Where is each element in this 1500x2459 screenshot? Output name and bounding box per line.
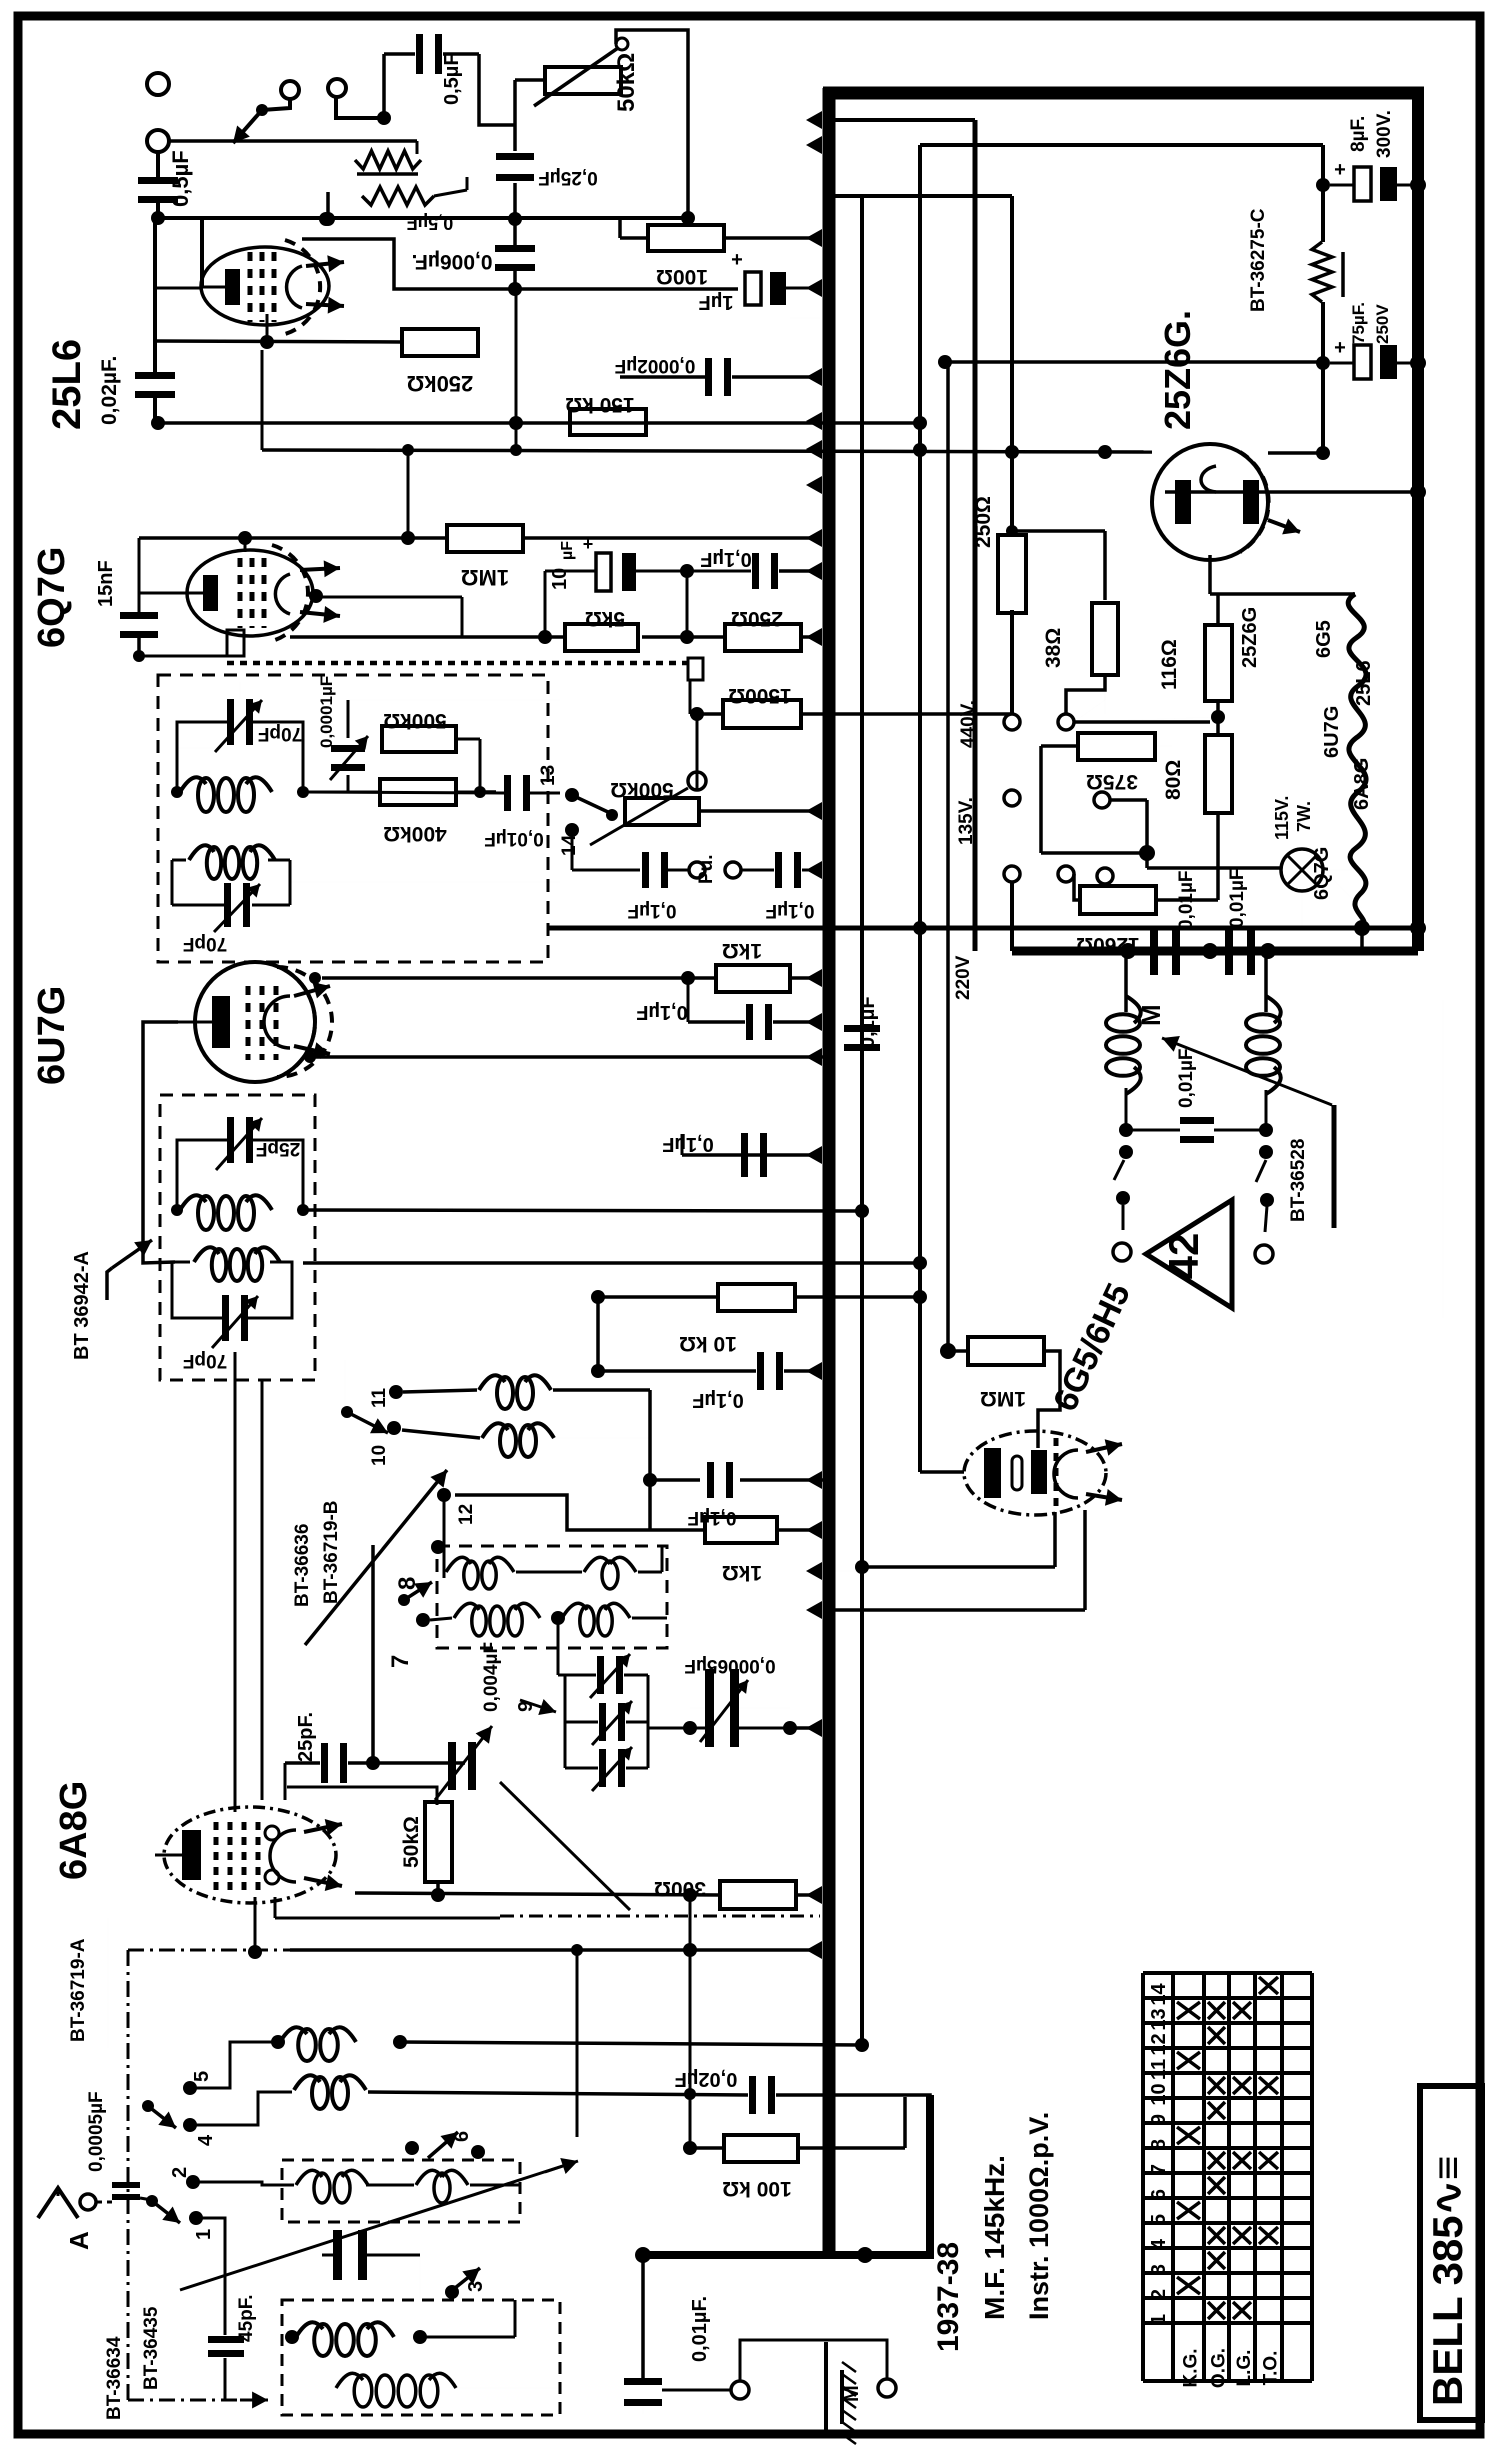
wire y1155	[681, 1134, 684, 1155]
svg-text:25pF.: 25pF.	[295, 1712, 317, 1762]
svg-text:6Q7G: 6Q7G	[31, 547, 73, 648]
svg-text:6U7G: 6U7G	[1321, 706, 1343, 758]
wire	[436, 1882, 440, 1895]
svg-text:BT-36719-B: BT-36719-B	[321, 1501, 342, 1605]
svg-text:M.F. 145kHz.: M.F. 145kHz.	[979, 2155, 1010, 2320]
wire x479	[479, 54, 515, 125]
wire	[690, 2146, 724, 2150]
svg-text:135V.: 135V.	[956, 797, 977, 845]
wire node	[938, 355, 952, 369]
IF coil 1a	[180, 777, 206, 792]
wire y218	[158, 216, 688, 220]
svg-text:6: 6	[1148, 2189, 1170, 2200]
capacitor 0,1uF e	[741, 1133, 748, 1177]
wire node	[304, 1051, 316, 1063]
svg-text:0,25µF: 0,25µF	[538, 167, 598, 188]
wire 10uF	[545, 570, 596, 573]
resistor zigzag BT-36275-C	[1312, 242, 1332, 302]
wire node	[151, 416, 165, 430]
wire jog 25L6 plate	[302, 239, 513, 289]
svg-text:1: 1	[193, 2229, 215, 2240]
svg-text:µF: µF	[559, 541, 576, 560]
svg-text:8: 8	[1148, 2139, 1170, 2150]
capacitor 10uF electrolytic	[596, 553, 611, 591]
wire y1057	[310, 1055, 829, 1059]
wire y1480	[650, 1478, 700, 1482]
wire node	[1316, 446, 1330, 460]
wire	[690, 1707, 706, 1709]
wire x374	[371, 1545, 375, 1763]
switch wiper 13	[606, 809, 618, 821]
mains terminal d	[1058, 714, 1074, 730]
wire ladder x948	[946, 362, 950, 1351]
IF transformer BT-36443-B dashed box	[158, 675, 548, 962]
wire x516 down	[515, 289, 518, 452]
resistor 5kOhm	[565, 624, 638, 651]
wire 6G5 bottom b	[1083, 1510, 1087, 1610]
mains terminal c	[1004, 866, 1020, 882]
wire y1263	[303, 1261, 920, 1265]
svg-text:10 kΩ: 10 kΩ	[679, 1332, 737, 1355]
wire y1567	[862, 1565, 1055, 1569]
osc coil C	[446, 1557, 471, 1572]
mains terminal f	[1058, 866, 1074, 882]
resistor 100kOhm	[724, 2135, 798, 2162]
svg-text:25L6: 25L6	[45, 339, 89, 430]
wire 25L6 g2	[266, 314, 269, 342]
wire	[801, 635, 820, 639]
capacitor 0,1uF b	[746, 1004, 753, 1040]
svg-text:7W.: 7W.	[1294, 801, 1314, 832]
svg-text:M: M	[841, 2385, 863, 2402]
svg-text:25Z6G: 25Z6G	[1239, 607, 1261, 668]
resistor 1MOhm	[447, 525, 523, 552]
svg-text:4: 4	[195, 2134, 217, 2146]
resistor hum zigzag	[362, 187, 434, 205]
wire	[336, 97, 384, 118]
ant coil row5	[336, 2373, 363, 2388]
resistor 116Ohm	[1205, 625, 1232, 701]
wire node	[855, 1560, 869, 1574]
resistor 1260Ohm	[1080, 886, 1156, 914]
IF transformer BT-36942-A dashed box	[160, 1095, 315, 1380]
svg-text:220V: 220V	[953, 955, 974, 1000]
trimmer capacitor padder c	[599, 1749, 606, 1787]
gang line	[180, 2162, 575, 2290]
osc coil D	[584, 1557, 610, 1572]
wire ladder x862	[860, 196, 864, 2045]
capacitor 0,02uF	[135, 372, 175, 379]
dashed box antenna bottom	[282, 2300, 560, 2415]
capacitor 0,01uF out	[624, 2378, 662, 2385]
svg-text:50kΩ: 50kΩ	[613, 53, 640, 112]
contact 2	[186, 2175, 200, 2189]
wire	[172, 859, 186, 862]
terminal Pu	[689, 862, 705, 878]
wire	[420, 2336, 515, 2339]
capacitor 0,01uF ps a	[1150, 927, 1158, 975]
wire	[516, 1571, 582, 1574]
trimmer capacitor 25pF	[227, 1117, 234, 1163]
terminal T2	[147, 130, 169, 152]
bus top horizontal	[823, 87, 1424, 100]
bus taper y238	[806, 229, 822, 247]
rheostat 50kOhm	[545, 67, 621, 94]
capacitor 0,01uF ps b	[1225, 927, 1233, 975]
wire	[1112, 876, 1114, 888]
mains terminal a	[1004, 714, 1020, 730]
switch spk left	[1119, 1145, 1133, 1159]
resistor 10kOhm	[718, 1284, 795, 1311]
svg-text:0,5µF: 0,5µF	[168, 150, 193, 207]
svg-text:300Ω: 300Ω	[654, 1877, 706, 1900]
capacitor 0,5uF top	[416, 34, 423, 74]
svg-text:440V.: 440V.	[958, 700, 979, 748]
dash-dot shield left	[127, 1950, 130, 2400]
wire	[196, 2218, 225, 2230]
svg-text:45pF.: 45pF.	[236, 2294, 257, 2342]
resistor 38Ohm	[1092, 603, 1118, 675]
wire y423	[158, 421, 828, 425]
wire node	[508, 212, 522, 226]
wire node x1012	[1005, 445, 1019, 459]
wire y978 rail	[322, 976, 716, 980]
svg-text:6Q7G: 6Q7G	[1311, 847, 1333, 900]
switch contact 14	[565, 823, 579, 837]
heavy wire x930	[926, 2095, 934, 2256]
wire node x862 y1038	[861, 1022, 863, 1032]
svg-text:0,1µF: 0,1µF	[857, 996, 879, 1048]
wire x558 down	[557, 1618, 560, 1675]
wire	[196, 2042, 278, 2088]
wire	[196, 2092, 292, 2125]
resistor 250Ohm b	[725, 624, 801, 651]
capacitor 0,1uF pu2	[775, 852, 782, 888]
bus right vertical	[1412, 88, 1424, 951]
svg-text:0,0001µF: 0,0001µF	[317, 676, 336, 748]
bus bottom heavy y951	[1012, 947, 1418, 956]
resistor 400kOhm	[380, 779, 456, 805]
bus junction tapers	[806, 111, 822, 129]
wire node	[1211, 710, 1225, 724]
svg-text:400kΩ: 400kΩ	[383, 822, 447, 845]
tube 25L6	[201, 240, 344, 334]
wire y145	[920, 143, 1323, 147]
wire	[1124, 951, 1128, 1012]
capacitor 25pF osc	[321, 1743, 328, 1783]
svg-text:250V: 250V	[1373, 304, 1392, 344]
antenna terminal	[80, 2194, 96, 2210]
wire node	[1139, 845, 1155, 861]
svg-text:6G5: 6G5	[1313, 620, 1335, 658]
svg-text:300V.: 300V.	[1374, 110, 1395, 158]
wire y2092	[368, 2092, 748, 2095]
ant coil row1	[280, 2027, 307, 2042]
switch wiper antenna	[146, 2195, 158, 2207]
resistor 300Ohm	[720, 1881, 796, 1909]
svg-text:5: 5	[191, 2071, 213, 2082]
wire node	[635, 2247, 651, 2263]
wire coil to cap	[177, 722, 227, 748]
tuning gang capacitor osc	[333, 2230, 342, 2280]
wire node	[151, 211, 165, 225]
wire 38 to term	[1066, 675, 1105, 714]
heavy wire y2255	[643, 2251, 934, 2259]
wire y362 to right	[945, 360, 1323, 364]
svg-text:50kΩ: 50kΩ	[400, 1816, 423, 1868]
svg-text:1500Ω: 1500Ω	[728, 684, 792, 707]
gang diagonal line K	[500, 1782, 630, 1910]
svg-text:1MΩ: 1MΩ	[461, 565, 509, 590]
wire lamp	[1323, 869, 1355, 871]
table X marks	[1177, 1977, 1278, 2319]
wire y377 capacitor 0,0002uF	[620, 375, 705, 379]
capacitor 0,1uF a	[752, 553, 759, 589]
switch wiper	[341, 1406, 353, 1418]
wire	[172, 1262, 222, 1318]
svg-text:13: 13	[538, 765, 559, 786]
svg-text:L.G.: L.G.	[1234, 2350, 1255, 2387]
wire node	[538, 630, 552, 644]
svg-text:BT-36719-A: BT-36719-A	[68, 1938, 89, 2042]
wire	[1110, 798, 1147, 802]
tube 6A8G	[155, 1807, 342, 1903]
capacitor 0,1uF bus right	[844, 1025, 880, 1032]
wire y928 heavy	[548, 926, 1418, 931]
wire y1610	[829, 1608, 1085, 1612]
svg-text:0,01µF: 0,01µF	[484, 828, 544, 849]
svg-text:1: 1	[1148, 2314, 1170, 2325]
svg-text:12: 12	[1148, 2033, 1170, 2055]
trimmer capacitor padder b	[599, 1703, 606, 1741]
capacitor 0,1uF osc	[707, 1462, 714, 1498]
svg-text:38Ω: 38Ω	[1042, 628, 1065, 668]
wire x1323	[1321, 145, 1325, 242]
switch wiper 8	[398, 1594, 410, 1606]
resistor 1kOhm osc	[705, 1517, 777, 1543]
capacitor spk	[1180, 1117, 1214, 1124]
avc dash-dot line	[128, 1949, 290, 1952]
svg-text:+: +	[1334, 337, 1346, 359]
svg-text:BT-36275-C: BT-36275-C	[1248, 208, 1269, 312]
svg-text:7: 7	[1148, 2164, 1170, 2175]
svg-text:12: 12	[456, 1504, 477, 1525]
svg-text:10: 10	[369, 1445, 390, 1466]
wire	[402, 1430, 480, 1438]
ant coil row2	[294, 2075, 320, 2090]
capacitor 8uF electrolytic	[1316, 178, 1330, 192]
svg-text:0,004µF: 0,004µF	[481, 1642, 502, 1712]
svg-text:14: 14	[559, 834, 580, 856]
wire y1571 right	[829, 1570, 862, 1572]
wire	[1216, 594, 1220, 625]
wire tube cathode	[249, 1860, 251, 1895]
svg-text:10: 10	[1148, 2083, 1170, 2105]
wire ladder x975	[973, 120, 978, 951]
terminal T4	[328, 79, 346, 97]
svg-text:100 kΩ: 100 kΩ	[722, 2177, 791, 2200]
svg-text:0,01µF: 0,01µF	[1227, 868, 1248, 928]
svg-text:0,1µF: 0,1µF	[636, 1001, 688, 1023]
wire	[347, 700, 350, 738]
wire node	[171, 786, 183, 798]
trimmer capacitor 70pF b	[224, 883, 231, 927]
svg-text:13: 13	[1148, 2008, 1170, 2030]
wire y1787	[287, 1787, 437, 1805]
svg-text:70pF: 70pF	[258, 723, 302, 744]
wire x384	[382, 54, 386, 118]
wire rheostat top	[616, 30, 688, 218]
svg-text:70pF: 70pF	[183, 933, 227, 954]
wire	[777, 1528, 820, 1532]
switch contact 10	[387, 1421, 401, 1435]
wire grid 6U7G	[143, 1022, 178, 1263]
svg-text:2: 2	[169, 2167, 191, 2178]
resistor 50kOhm	[425, 1802, 452, 1882]
IF2 coil b	[194, 1247, 219, 1262]
wire node	[855, 2038, 869, 2052]
svg-text:+: +	[731, 249, 743, 271]
osc coil A	[479, 1375, 505, 1390]
resistor 375Ohm	[1078, 733, 1155, 760]
svg-text:3: 3	[1148, 2264, 1170, 2275]
wire y1371	[598, 1369, 756, 1373]
svg-text:0,5µF: 0,5µF	[441, 53, 463, 105]
capacitor 0,1uF f	[757, 1352, 764, 1390]
svg-text:BELL 385∿≡: BELL 385∿≡	[1424, 2156, 1471, 2406]
svg-text:Instr. 1000Ω.p.V.: Instr. 1000Ω.p.V.	[1024, 2112, 1054, 2320]
svg-text:7: 7	[387, 1655, 414, 1668]
ant coil row3	[296, 2170, 322, 2185]
wire	[1216, 701, 1220, 735]
wire node y423	[828, 421, 920, 425]
heater chain wavy	[1348, 594, 1366, 928]
wire	[384, 52, 415, 56]
wire y1297	[598, 1295, 718, 1299]
svg-text:BT 36942-A: BT 36942-A	[71, 1251, 93, 1360]
wire pickup	[571, 838, 574, 870]
svg-text:1kΩ: 1kΩ	[722, 939, 762, 962]
svg-text:1MΩ: 1MΩ	[980, 1387, 1026, 1410]
resistor cathode 6Q7G	[227, 630, 244, 656]
wire x577	[576, 1950, 579, 2137]
pilot lamp 115V 7W	[1281, 849, 1323, 891]
resistor 250Ohm vertical	[998, 535, 1026, 613]
wire x262 grid 6A8G	[261, 1380, 264, 1800]
wire	[1074, 874, 1080, 900]
shield zigzag line	[227, 661, 688, 666]
svg-text:5kΩ: 5kΩ	[585, 607, 625, 630]
resistor 1kOhm avc	[716, 965, 790, 992]
wire y289 right	[515, 287, 738, 291]
svg-text:A: A	[64, 2231, 94, 2250]
triangle 42	[1146, 1200, 1232, 1308]
svg-text:150 kΩ: 150 kΩ	[565, 393, 634, 416]
svg-text:6A8G: 6A8G	[1351, 758, 1373, 810]
wire y1950	[290, 1948, 820, 1952]
svg-text:K.G.: K.G.	[1181, 2348, 1202, 2387]
wire	[1125, 1088, 1128, 1130]
tube 25Z6G rectifier	[1152, 444, 1300, 560]
resistor speaker field zigzag	[355, 151, 421, 169]
switch contact 7	[416, 1613, 430, 1627]
wire node	[297, 1204, 309, 1216]
svg-text:0,0005µF: 0,0005µF	[86, 2091, 107, 2172]
svg-text:Pu.: Pu.	[696, 854, 717, 884]
svg-text:80Ω: 80Ω	[1162, 760, 1185, 800]
wire y318	[790, 317, 820, 319]
resistor 100Ohm	[648, 225, 724, 251]
wire x690	[689, 1895, 692, 1950]
switch contact 12	[437, 1488, 451, 1502]
wire ladder x920	[918, 145, 922, 1472]
switch spk right	[1259, 1145, 1273, 1159]
capacitor 0,25uF	[496, 153, 534, 160]
capacitor 0,01uF avc	[504, 775, 511, 811]
wire y492	[1165, 490, 1418, 494]
wire y141	[169, 139, 417, 143]
arrow BT-36719-B	[305, 1470, 447, 1645]
wire	[176, 748, 179, 792]
wire heater bottom	[1301, 891, 1303, 928]
wire y853	[1041, 851, 1147, 855]
svg-text:0,0002µF: 0,0002µF	[615, 355, 696, 376]
svg-text:100Ω: 100Ω	[656, 265, 708, 288]
terminal T3	[281, 81, 299, 99]
osc coil E	[454, 1603, 479, 1618]
wire	[196, 2182, 294, 2185]
wire	[285, 1761, 320, 1765]
wire y656	[139, 655, 227, 658]
wire x643	[641, 2255, 645, 2378]
wire y2042	[400, 2042, 862, 2045]
tuning gang capacitor osc section	[448, 1742, 456, 1790]
svg-text:6U7G: 6U7G	[31, 986, 73, 1085]
wire ladder x1012	[1010, 196, 1014, 535]
wire y453	[1268, 451, 1323, 455]
wire node	[248, 1945, 262, 1959]
IF2 coil a	[180, 1195, 206, 1210]
switch contact 3	[445, 2285, 459, 2299]
capacitor 0,02uF ant	[749, 2076, 756, 2114]
wire x235 grid 6A8G	[234, 1352, 237, 1812]
capacitor 75uF electrolytic	[1316, 356, 1330, 370]
svg-text:0,1µF: 0,1µF	[700, 548, 752, 570]
svg-text:1µF: 1µF	[699, 291, 734, 313]
title box BELL 385	[1420, 2086, 1482, 2420]
svg-text:0,02µF.: 0,02µF.	[98, 356, 121, 425]
wire node	[508, 282, 522, 296]
mains terminal g	[1097, 868, 1113, 884]
wire	[632, 1617, 667, 1620]
svg-text:0,1µF: 0,1µF	[692, 1389, 744, 1411]
bus taper y288	[806, 279, 822, 297]
svg-text:250kΩ: 250kΩ	[407, 371, 474, 396]
wire rung y120	[829, 118, 975, 122]
svg-text:250Ω: 250Ω	[972, 496, 995, 548]
wire node	[1120, 943, 1136, 959]
trimmer capacitor 0,0001uF	[331, 745, 365, 752]
wire x1323 lower	[1321, 302, 1325, 453]
svg-text:+: +	[1334, 159, 1346, 181]
field coil right	[1246, 996, 1281, 1094]
resistor 1500Ohm	[723, 700, 801, 728]
switch contact 11	[389, 1385, 403, 1399]
wire	[776, 2095, 930, 2130]
osc coil F	[562, 1603, 587, 1618]
dashed box antenna mid	[282, 2160, 520, 2222]
ant coil row4	[296, 2322, 323, 2337]
